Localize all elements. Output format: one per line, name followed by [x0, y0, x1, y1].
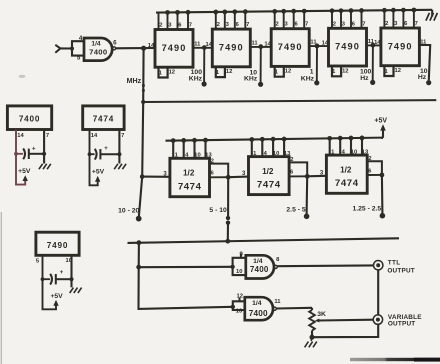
svg-text:7400: 7400 — [89, 47, 107, 56]
node junction MHz distribution line — [141, 100, 145, 104]
svg-text:8: 8 — [276, 257, 280, 263]
wire tap 100 Hz — [372, 45, 374, 80]
svg-text:+: + — [32, 147, 36, 153]
wire IC3 pin 3 stub to ground bus — [283, 11, 285, 29]
page rule left edge — [0, 212, 2, 364]
svg-text:KHz: KHz — [244, 76, 258, 83]
wire jumper to bottom bus — [227, 223, 229, 242]
node 7490 right junction — [69, 277, 73, 281]
wire IC2 pin 12 to pin 1 feedback loop — [216, 66, 225, 77]
wire IC5 pin 11 output elbow — [419, 45, 430, 80]
wire FF2 pin 4 stub to +5V bus — [261, 139, 263, 157]
node bus junction IC3-6 — [291, 9, 296, 14]
svg-text:MHz: MHz — [127, 77, 142, 85]
wire IC2 pin 11 to IC3 pin 14 — [250, 46, 271, 48]
wire FF2 pin 1 stub to +5V bus — [251, 139, 253, 157]
svg-text:13: 13 — [362, 149, 369, 155]
svg-text:7490: 7490 — [388, 41, 413, 51]
svg-text:1: 1 — [216, 70, 220, 76]
terminal jumper dot — [226, 221, 230, 225]
wiper arrow R1 — [315, 319, 319, 323]
wire IC3 pin 11 to IC4 pin 14 — [309, 45, 328, 47]
wire FF3 pin 6 output — [367, 174, 382, 176]
svg-text:6: 6 — [211, 171, 214, 177]
terminal tap dot — [370, 80, 375, 85]
node bus junction IC2-3 — [222, 10, 227, 15]
wire input to U1a — [60, 47, 72, 49]
svg-text:7: 7 — [121, 133, 124, 139]
wire FF1 pin 2 to pin 6 loop — [210, 164, 229, 178]
wire IC5 pin 6 stub to ground bus — [402, 10, 404, 29]
node bead 2 — [142, 89, 145, 92]
terminal 10-20 MHz tap — [136, 216, 142, 222]
svg-text:6: 6 — [290, 170, 293, 176]
wire IC1 pin 11 to IC2 pin 14 — [193, 47, 212, 49]
wire IC2 pin 7 stub to ground bus — [244, 12, 246, 30]
wire IC1 pin 6 stub to ground bus — [177, 12, 179, 30]
wire IC4 pin 6 stub to ground bus — [350, 11, 352, 30]
wire IC2 pin 3 stub to ground bus — [224, 12, 226, 30]
wire left drop to U1c input — [139, 267, 233, 309]
node +5V bus junction FF2-1 — [249, 137, 254, 142]
wire 5-10 tap jumper upper — [227, 177, 229, 216]
ground symbol pot — [310, 337, 313, 341]
wire clock MHz to FF1 pin 3 — [142, 176, 170, 178]
svg-text:1: 1 — [384, 69, 388, 75]
svg-text:7490: 7490 — [219, 42, 244, 52]
node tap junction 1 KHz — [315, 44, 320, 49]
node bus junction IC2-7 — [243, 9, 248, 14]
svg-text:7: 7 — [246, 22, 249, 28]
node +5V bus junction FF3-1 — [327, 136, 332, 141]
wire U1b output to TTL OUTPUT — [277, 264, 373, 267]
wire IC4 pin 7 stub to ground bus — [361, 11, 363, 30]
svg-text:1/2: 1/2 — [340, 166, 352, 175]
node bead 1 — [142, 84, 145, 87]
svg-text:7474: 7474 — [335, 178, 359, 189]
node 7400 left junction — [14, 152, 18, 156]
svg-text:6: 6 — [236, 22, 240, 28]
potentiometer R1 3K — [311, 308, 313, 310]
svg-text:6: 6 — [368, 168, 371, 174]
input terminal arrow — [55, 45, 60, 53]
svg-text:10: 10 — [236, 269, 242, 275]
svg-text:12: 12 — [342, 68, 348, 74]
node 7474 right junction — [117, 152, 121, 156]
svg-text:12: 12 — [236, 293, 242, 299]
wire IC5 pin 12 to pin 1 feedback loop — [384, 65, 393, 76]
svg-text:1: 1 — [310, 68, 314, 75]
svg-text:1: 1 — [159, 70, 163, 76]
node tap junction 100 KHz — [202, 45, 207, 50]
inset 7490 pin 10 stub — [70, 255, 72, 287]
wire FF2 pin 13 stub to +5V bus — [283, 139, 285, 158]
svg-text:7474: 7474 — [93, 115, 114, 124]
wire FF1 pin 6 output — [210, 176, 229, 178]
svg-text:13: 13 — [284, 151, 291, 157]
inset 7400 pin 7 stub — [43, 130, 45, 164]
wire tap 10 KHz — [260, 47, 262, 82]
svg-text:10: 10 — [66, 258, 72, 264]
svg-text:KHz: KHz — [189, 75, 203, 82]
wire MHz rail vertical — [139, 48, 144, 217]
svg-text:7: 7 — [189, 23, 192, 29]
wire pot bottom to jack shells — [312, 324, 378, 337]
node +5V bus junction FF3-13 — [360, 135, 365, 140]
svg-text:2: 2 — [368, 156, 371, 162]
node +5V bus junction FF1-4 — [181, 138, 186, 143]
node +5V bus junction FF1-13 — [203, 138, 208, 143]
node bus junction IC5-6 — [401, 8, 406, 13]
counter IC1 7490 decade divider — [155, 30, 193, 68]
svg-text:1/2: 1/2 — [262, 167, 274, 176]
wire IC3 pin 7 stub to ground bus — [303, 11, 305, 30]
svg-text:7: 7 — [362, 21, 365, 27]
svg-text:7490: 7490 — [47, 241, 68, 250]
wire FF3 pin 13 stub to +5V bus — [361, 138, 363, 156]
svg-text:10: 10 — [194, 153, 200, 159]
ground symbol top right — [426, 13, 430, 21]
svg-text:+: + — [60, 270, 64, 276]
pin 12 stub — [239, 298, 241, 302]
svg-text:7: 7 — [415, 21, 418, 27]
wire FF3 pin 1 stub to +5V bus — [329, 138, 331, 156]
svg-text:OUTPUT: OUTPUT — [387, 268, 414, 275]
svg-text:2: 2 — [159, 23, 162, 29]
ground symbol 7474 — [114, 164, 118, 169]
terminal tap dot — [314, 80, 319, 85]
node +5V bus junction FF1-1 — [171, 138, 176, 143]
inset 7490 pin 5 stub — [42, 255, 44, 279]
node bus junction IC3-2 — [272, 9, 277, 14]
svg-text:6: 6 — [294, 22, 298, 28]
power +5V 7474 — [90, 154, 98, 185]
power +5V 7400 — [16, 154, 25, 185]
svg-text:13: 13 — [236, 309, 243, 315]
node bracket junction U1c — [231, 305, 235, 309]
svg-text:11: 11 — [194, 41, 201, 47]
node pot bottom junction — [310, 335, 315, 340]
node 7400 right junction — [42, 152, 46, 156]
svg-text:11: 11 — [252, 41, 259, 47]
wire IC3 pin 6 stub to ground bus — [293, 11, 295, 29]
svg-text:3: 3 — [394, 21, 398, 27]
svg-text:6: 6 — [404, 21, 408, 27]
terminal tap dot — [202, 81, 207, 86]
node MHz junction — [141, 46, 146, 51]
svg-text:1.25 - 2.5: 1.25 - 2.5 — [352, 205, 381, 212]
wire left drop to U1b input — [138, 243, 140, 267]
svg-text:11: 11 — [420, 39, 427, 45]
wire to U1b tie bracket — [139, 266, 233, 269]
svg-text:10 - 20: 10 - 20 — [118, 207, 139, 214]
wire FF3 pin 10 stub to +5V bus — [350, 138, 352, 156]
svg-text:12: 12 — [226, 69, 232, 75]
svg-text:7490: 7490 — [162, 43, 187, 53]
wire ground bus drop — [431, 10, 433, 17]
svg-text:2: 2 — [333, 21, 336, 27]
node bus junction IC4-3 — [339, 8, 344, 13]
svg-text:1: 1 — [332, 69, 336, 75]
terminal 2.5-5 tap dot — [304, 214, 310, 220]
capacitor C 7474 bypass — [90, 153, 95, 155]
pin 8 output bubble — [274, 265, 277, 268]
node +5V bus junction FF1-10 — [192, 138, 197, 143]
node +5V bus junction FF2-13 — [282, 137, 287, 142]
svg-text:1/4: 1/4 — [252, 300, 262, 307]
svg-text:3: 3 — [168, 23, 172, 29]
svg-text:6: 6 — [113, 39, 117, 46]
wire FF3 pin 2 to pin 6 loop — [367, 161, 382, 175]
wire IC1 pin 7 stub to ground bus — [187, 12, 189, 30]
wire IC4 pin 2 stub to ground bus — [331, 11, 333, 29]
svg-text:2.5 - 5: 2.5 - 5 — [286, 206, 305, 213]
IC detail inset 7474 box — [83, 106, 124, 130]
wire FF2 pin 6 output — [289, 175, 307, 177]
faint smudge — [19, 75, 26, 78]
terminal tap dot — [258, 82, 263, 87]
wire FF2 pin 10 stub to +5V bus — [272, 139, 274, 157]
svg-text:7474: 7474 — [257, 180, 281, 191]
pin 6 output bubble — [113, 47, 116, 50]
counter IC5 7490 decade divider — [381, 28, 420, 66]
terminal 10 Hz tap dot — [426, 80, 431, 85]
inset 7474 pin 7 stub — [118, 130, 120, 164]
node +5V bus junction FF2-10 — [271, 137, 276, 142]
svg-text:+: + — [104, 146, 108, 152]
wire IC1 pin 3 stub to ground bus — [167, 12, 169, 30]
wire wiper to VARIABLE OUTPUT — [319, 319, 374, 322]
NAND gate U1b 1/4 7400 — [246, 255, 274, 278]
flip-flop FF2 1/2 7474 — [249, 157, 290, 195]
power +5V arrow middle — [382, 127, 384, 138]
svg-text:2: 2 — [275, 22, 278, 28]
node bus junction IC1-3 — [165, 10, 170, 15]
NAND gate U1c 1/4 7400 — [245, 297, 273, 320]
node bracket junction U1b — [230, 265, 234, 269]
wire selected-frequency bus bottom — [128, 238, 400, 243]
svg-text:7490: 7490 — [335, 42, 360, 52]
svg-text:1/2: 1/2 — [183, 169, 195, 178]
wire IC4 pin 3 stub to ground bus — [340, 11, 342, 30]
capacitor C 7400 bypass — [16, 153, 23, 155]
inset 7474 pin 14 stub — [89, 130, 91, 155]
wire MHz distribution line — [143, 100, 436, 102]
connector VARIABLE OUTPUT jack — [373, 315, 382, 324]
svg-text:+5V: +5V — [92, 169, 105, 176]
wire IC1 pin 12 to pin 1 feedback loop — [159, 66, 168, 77]
svg-text:OUTPUT: OUTPUT — [388, 320, 415, 327]
ground symbol 7400 — [39, 164, 43, 169]
node +5V bus junction FF3-10 — [349, 136, 354, 141]
terminal 5-10 tap dot — [226, 216, 230, 220]
svg-text:2: 2 — [385, 21, 388, 27]
wire IC3 pin 2 stub to ground bus — [274, 11, 276, 29]
wire FF1 pin 4 stub to +5V bus — [183, 140, 185, 159]
svg-text:Hz: Hz — [360, 75, 369, 82]
node bus junction IC4-2 — [330, 8, 335, 13]
svg-text:7400: 7400 — [19, 115, 40, 124]
node bus junction IC2-2 — [213, 10, 218, 15]
svg-text:+5V: +5V — [18, 168, 31, 175]
wire IC5 pin 7 stub to ground bus — [413, 10, 415, 29]
node bus junction IC5-7 — [412, 8, 417, 13]
wire +5V bus middle — [166, 138, 384, 141]
wire IC2 pin 6 stub to ground bus — [234, 12, 236, 30]
wire tap 1 KHz — [316, 46, 318, 81]
wire jack shell link — [377, 270, 379, 315]
wire U1a output to IC1 pin 14 — [116, 47, 155, 49]
svg-text:14: 14 — [91, 133, 98, 139]
wire FF1 pin 10 stub to +5V bus — [193, 140, 195, 159]
pin 9 stub — [240, 253, 242, 257]
counter IC4 7490 decade divider — [329, 28, 367, 66]
power +5V 7490 — [43, 279, 57, 309]
node FF1 output junction — [226, 175, 231, 180]
node tap junction 10 KHz — [258, 44, 263, 49]
node FF2 output junction — [305, 174, 310, 179]
IC detail inset 7400 box — [7, 106, 51, 130]
svg-text:3: 3 — [226, 22, 230, 28]
node bus junction IC1-6 — [175, 10, 180, 15]
svg-text:2: 2 — [211, 158, 214, 164]
counter IC2 7490 decade divider — [212, 29, 250, 67]
wire ground bus top — [156, 10, 432, 13]
svg-text:5: 5 — [77, 54, 81, 61]
svg-text:2: 2 — [217, 22, 220, 28]
node +5V bus junction FF2-4 — [260, 137, 265, 142]
svg-text:10: 10 — [351, 149, 357, 155]
node junction clock 7474 — [140, 174, 145, 179]
wire FF2 out to FF3 pin 3 — [307, 175, 326, 178]
terminal 1.25-2.5 tap dot — [380, 213, 386, 219]
svg-text:5: 5 — [36, 259, 40, 265]
capacitor C 7490 bypass — [43, 278, 51, 280]
wire IC4 pin 12 to pin 1 feedback loop — [332, 65, 341, 76]
connector TTL OUTPUT jack — [374, 261, 383, 270]
svg-text:10: 10 — [273, 151, 279, 157]
node bus junction left — [137, 240, 142, 245]
svg-text:7: 7 — [305, 22, 308, 28]
wire IC1 pin 2 stub to ground bus — [158, 13, 160, 31]
svg-text:3: 3 — [284, 22, 288, 28]
svg-text:7400: 7400 — [249, 309, 268, 318]
node bus junction IC4-6 — [349, 8, 354, 13]
wire IC3 pin 12 to pin 1 feedback loop — [275, 65, 284, 76]
svg-text:6: 6 — [178, 23, 182, 29]
svg-text:KHz: KHz — [301, 76, 315, 83]
wire tap 100 KHz — [203, 48, 205, 82]
wire FF1 out to FF2 pin 3 — [228, 176, 248, 179]
wire U1c output to pot — [276, 307, 312, 310]
flip-flop FF1 1/2 7474 — [170, 158, 210, 196]
svg-text:12: 12 — [285, 69, 291, 75]
node bus junction IC3-7 — [302, 9, 307, 14]
node FF3 output junction — [380, 173, 385, 178]
wire FF2 pin 2 to pin 6 loop — [289, 162, 307, 176]
node 7490 left junction — [41, 277, 45, 281]
svg-text:3K: 3K — [317, 311, 326, 318]
NAND gate U1a input tie bracket pins 4,5 — [72, 41, 84, 55]
svg-text:7: 7 — [46, 133, 49, 139]
node bus junction IC1-7 — [186, 10, 191, 15]
svg-text:3: 3 — [342, 21, 346, 27]
svg-text:2: 2 — [290, 157, 293, 163]
NAND gate U1a 1/4 7400 — [84, 38, 112, 61]
node 7474 left junction — [88, 152, 92, 156]
wire 1.25-2.5 tap — [381, 175, 384, 213]
node bus junction IC3-3 — [281, 9, 286, 14]
svg-text:7490: 7490 — [278, 42, 303, 52]
svg-text:14: 14 — [17, 133, 24, 139]
svg-text:7400: 7400 — [250, 265, 269, 274]
svg-text:11: 11 — [274, 299, 281, 305]
svg-text:1: 1 — [275, 70, 279, 76]
node bus junction IC2-6 — [232, 9, 237, 14]
node tap junction 100 Hz — [371, 43, 376, 48]
node bus junction IC5-3 — [391, 8, 396, 13]
wire IC5 pin 2 stub to ground bus — [383, 10, 385, 29]
flip-flop FF3 1/2 7474 — [326, 155, 367, 193]
svg-text:+5V: +5V — [374, 117, 387, 124]
svg-text:12: 12 — [394, 68, 400, 74]
svg-text:4: 4 — [79, 35, 83, 42]
wire IC4 pin 11 to IC5 pin 14 — [367, 44, 381, 46]
node bottom bus junction jumper — [225, 239, 230, 244]
svg-text:6: 6 — [352, 21, 356, 27]
svg-text:7474: 7474 — [178, 181, 202, 192]
node +5V bus junction FF3-4 — [338, 136, 343, 141]
svg-text:5 - 10: 5 - 10 — [209, 207, 227, 214]
wire FF1 pin 13 stub to +5V bus — [204, 140, 206, 159]
wire IC2 pin 2 stub to ground bus — [215, 12, 217, 30]
IC detail inset 7490 box — [36, 232, 79, 255]
svg-text:+5V: +5V — [50, 293, 63, 300]
node junction U1b input — [136, 265, 141, 270]
wire 2.5-5 tap — [306, 176, 309, 214]
counter IC3 7490 decade divider — [271, 29, 309, 67]
NAND gate U1b input tie bracket pins 9,10 — [233, 258, 246, 275]
svg-text:12: 12 — [169, 70, 175, 76]
wire FF3 pin 4 stub to +5V bus — [339, 138, 341, 156]
pin 11 output bubble — [273, 307, 276, 310]
wire FF1 pin 1 stub to +5V bus — [172, 141, 174, 160]
node bus junction IC4-7 — [359, 8, 364, 13]
inset 7400 pin 14 stub — [15, 130, 17, 154]
svg-text:TTL: TTL — [388, 260, 401, 267]
svg-text:Hz: Hz — [418, 74, 427, 81]
NAND gate U1c input tie bracket pins 12,13 — [233, 301, 245, 310]
ground symbol 7490 — [70, 288, 74, 293]
node input junction — [70, 47, 74, 51]
wire IC5 pin 3 stub to ground bus — [392, 10, 394, 29]
node bus junction IC5-2 — [382, 8, 387, 13]
